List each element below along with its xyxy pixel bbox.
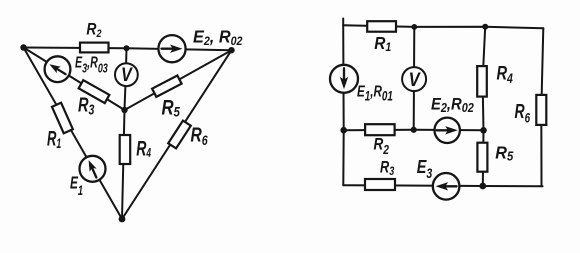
wire bottom side with R3,E3 (right circuit) — [343, 185, 542, 186]
label E1 (left circuit) — [70, 173, 83, 198]
label R3 (left circuit) — [78, 93, 94, 118]
source E1 (left circuit) — [80, 156, 106, 182]
label R4 (right circuit) — [497, 61, 513, 86]
label R2 (left circuit) — [86, 20, 101, 40]
voltmeter V (left circuit) — [115, 63, 138, 86]
label E2,R02 (right circuit) — [431, 95, 474, 115]
wire top side (right circuit) — [343, 25, 543, 28]
label R6 (left circuit) — [191, 123, 208, 148]
node T top junction (left circuit) — [124, 45, 130, 51]
label R2 (right circuit) — [374, 135, 390, 157]
wire middle row with R2,E2 (right circuit) — [344, 129, 484, 132]
resistor R1 (left circuit) — [52, 103, 73, 134]
label R4 (left circuit) — [136, 137, 151, 161]
label R6 (right circuit) — [515, 100, 531, 126]
resistor R1 (right circuit) — [367, 21, 396, 32]
wire left side with E1 (right circuit) — [342, 25, 345, 185]
node M center (left circuit) — [121, 107, 127, 113]
resistor R4 (left circuit) — [120, 135, 131, 164]
label E2,R02 (left circuit) — [193, 27, 243, 48]
wire branch M-B with R5 (left circuit) — [125, 50, 232, 110]
node B top-right vertex (left circuit) — [228, 47, 234, 53]
wire voltmeter branch T-M (left circuit) — [125, 48, 127, 110]
resistor R2 (right circuit) — [365, 124, 395, 135]
source E2 (left circuit) — [158, 35, 185, 62]
wire branch M-C with R4 (left circuit) — [122, 110, 125, 219]
resistor R2 (left circuit) — [80, 43, 109, 53]
source E3 (right circuit) — [433, 173, 460, 200]
label E3,R03 (left circuit) — [75, 54, 108, 76]
node middle-left junction (right circuit) — [340, 127, 347, 134]
source E3 (left circuit) — [45, 56, 71, 82]
svg-text:V: V — [409, 69, 422, 91]
source E2 (right circuit) — [435, 118, 460, 143]
resistor R5 (left circuit) — [152, 76, 182, 97]
resistor R4 (right circuit) — [477, 66, 487, 97]
label E3 (right circuit) — [417, 156, 433, 181]
wire left side A-C with R1,E1 (left circuit) — [24, 48, 123, 220]
label E1,R01 (right circuit) — [357, 82, 393, 105]
resistor R6 (left circuit) — [168, 121, 191, 149]
resistor R5 (right circuit) — [477, 143, 487, 172]
label R5 (right circuit) — [495, 143, 513, 164]
resistor R3 (left circuit) — [79, 80, 110, 103]
resistor R6 (right circuit) — [536, 95, 546, 125]
node A top-left vertex (left circuit) — [20, 44, 26, 50]
node middle-right junction (right circuit) — [480, 127, 487, 134]
source E1 (right circuit) — [330, 65, 358, 93]
node top V junction (right circuit) — [411, 24, 417, 30]
voltmeter V (right circuit) — [402, 67, 426, 91]
wire right side with R6 (right circuit) — [541, 28, 543, 186]
label R3 (right circuit) — [380, 158, 394, 179]
label R1 (right circuit) — [374, 34, 391, 54]
wire right side C-B with R6 (left circuit) — [122, 50, 232, 219]
label R5 (left circuit) — [162, 97, 181, 120]
label R1 (left circuit) — [47, 126, 61, 151]
resistor R3 (right circuit) — [365, 179, 395, 190]
wire R5 branch (right circuit) — [482, 130, 485, 186]
node middle V junction (right circuit) — [411, 127, 417, 133]
wire corner overshoot tick (right circuit) — [342, 19, 344, 26]
wire branch A-M with E3,R3 (left circuit) — [24, 48, 125, 111]
wire voltmeter branch (right circuit) — [413, 27, 416, 130]
svg-text:V: V — [121, 64, 133, 86]
node top R4 junction (right circuit) — [482, 24, 488, 30]
wire top side A-B (left circuit) — [24, 48, 232, 51]
node bottom R5 junction (right circuit) — [479, 183, 486, 190]
node C bottom vertex (left circuit) — [119, 216, 126, 223]
wire R4 branch (right circuit) — [483, 27, 486, 131]
